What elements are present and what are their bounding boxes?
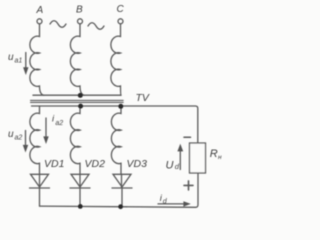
svg-text:u: u: [8, 52, 14, 63]
svg-text:U: U: [166, 160, 174, 172]
svg-text:C: C: [117, 4, 125, 15]
svg-text:a2: a2: [55, 120, 63, 127]
svg-text:u: u: [8, 129, 14, 140]
svg-text:н: н: [218, 154, 222, 161]
svg-text:a1: a1: [15, 58, 23, 65]
svg-text:TV: TV: [136, 92, 150, 104]
svg-text:A: A: [36, 5, 44, 16]
svg-text:VD3: VD3: [127, 158, 148, 170]
svg-text:a2: a2: [15, 135, 23, 142]
svg-text:VD1: VD1: [44, 158, 64, 170]
svg-text:VD2: VD2: [85, 158, 106, 170]
svg-text:B: B: [76, 5, 83, 16]
svg-text:R: R: [210, 148, 218, 160]
